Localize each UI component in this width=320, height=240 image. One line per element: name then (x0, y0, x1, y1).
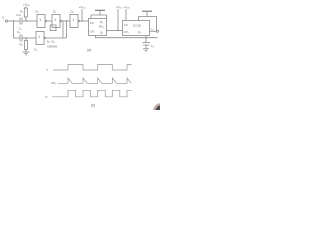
wire drop at x63 (62, 21, 64, 38)
inverter D4 (70, 10, 80, 28)
capacitor C1 (16, 15, 22, 31)
+VDD supply 3 (116, 5, 123, 31)
output terminal vO (150, 27, 159, 33)
ground 2 (23, 52, 30, 55)
resistor R1 (20, 6, 27, 21)
wire node B down to lower branch (66, 21, 68, 38)
svg-text:(a): (a) (87, 48, 91, 52)
node B junction (66, 20, 67, 21)
inverter D2 (36, 9, 47, 27)
svg-text:(b): (b) (91, 104, 95, 108)
wire D2 to D3 (47, 20, 52, 22)
wire input to C1 (8, 20, 20, 22)
waveform CP1 trace (51, 78, 131, 86)
waveform diagram (45, 65, 132, 108)
svg-text:1D: 1D (90, 21, 94, 25)
svg-text:1: 1 (54, 18, 56, 22)
svg-text:1: 1 (38, 35, 40, 39)
svg-text:D1~D4: D1~D4 (47, 40, 55, 45)
input terminal vI (2, 15, 8, 22)
node X junction (13, 20, 14, 21)
page corner artifact (153, 103, 169, 120)
+VDD supply 4 (124, 5, 131, 21)
svg-text:IC101: IC101 (133, 23, 142, 27)
wire C2 to D1 (22, 37, 36, 39)
node E junction (25, 37, 26, 38)
wire D3 to D4 (62, 20, 70, 22)
label D1-D4 CB4069 (47, 40, 58, 49)
svg-text:1: 1 (39, 18, 41, 22)
node A junction (26, 20, 27, 21)
node D junction (117, 30, 118, 31)
capacitor CX2 over IC U2 (139, 11, 157, 32)
node C junction (81, 20, 82, 21)
inverter D1 (34, 32, 45, 52)
+VDD supply 2 (79, 5, 86, 21)
waveform vO trace (45, 90, 132, 99)
wire D4 to IC1 (80, 20, 89, 22)
inverter D3 (52, 10, 62, 28)
wire C1 to gate D2 (22, 20, 37, 22)
capacitor C2 (17, 30, 22, 42)
resistor R2 (20, 38, 28, 52)
capacitor CX1 over IC U1 (91, 10, 107, 19)
wire D1 to node B (46, 37, 67, 39)
capacitor C4 (142, 36, 153, 49)
svg-text:1D: 1D (124, 23, 128, 27)
ground 1 (143, 49, 149, 52)
small box below D3 (50, 25, 56, 31)
svg-text:1: 1 (72, 18, 74, 22)
IC U2 (123, 21, 150, 36)
ground rail (96, 36, 158, 38)
svg-text:0.01: 0.01 (16, 15, 21, 17)
wire U1 to U2 (107, 30, 123, 32)
waveform vI trace (46, 65, 132, 73)
svg-text:CB4069: CB4069 (47, 45, 58, 49)
wire node X down to lower branch (14, 21, 21, 38)
IC U1 (89, 19, 107, 36)
